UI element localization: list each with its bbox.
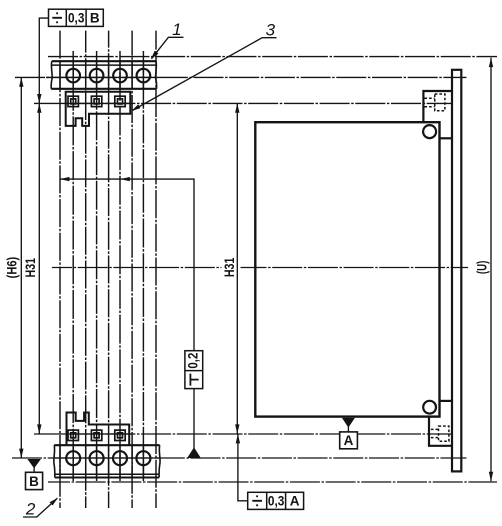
board front view outline: [255, 122, 439, 416]
pin 3 square top: [115, 96, 125, 106]
svg-text:3: 3: [266, 21, 276, 40]
hole 3 bottom: [113, 451, 127, 465]
hidden pin contour bottom: [431, 426, 449, 441]
pin 1 square bottom: [68, 430, 78, 440]
pin span dimension line: [60, 179, 194, 351]
pin row axis bottom: [34, 433, 451, 435]
pin 3 square bottom: [115, 430, 125, 440]
hole 1 bottom: [66, 451, 80, 465]
hole 3 top: [113, 69, 127, 83]
bottom bracket upper step: [440, 400, 453, 402]
arrow label 3: [132, 104, 141, 111]
pin row solid overdraw top: [64, 102, 132, 104]
datum A stem: [347, 426, 349, 432]
parallelism tolerance frame top: [49, 9, 104, 26]
svg-text:H31: H31: [23, 258, 38, 278]
datum B box: [26, 472, 43, 489]
dimension (U) line: [490, 58, 492, 482]
pin row axis top: [34, 102, 452, 104]
top bracket lower step: [440, 137, 453, 139]
dimension (H6) line: [20, 77, 22, 458]
arrow H31 left bottom: [37, 424, 41, 433]
arrow frame-B leader down: [37, 94, 41, 103]
top mounting bracket: [423, 91, 452, 121]
guide rail plate right: [452, 70, 461, 472]
datum B triangle: [27, 459, 41, 468]
datum A box: [340, 432, 358, 449]
arrow pin span left: [60, 177, 69, 181]
board hole top right: [423, 125, 436, 138]
centerline solid overdraw through bottom housing: [60, 445, 143, 477]
label 1 leader: [152, 37, 184, 58]
hidden pin contour top: [425, 94, 445, 111]
extension line top (U): [48, 56, 497, 58]
centerline V2: [85, 31, 87, 508]
hole 4 bottom: [136, 451, 150, 465]
bottom connector housing bar: [54, 445, 160, 477]
leader from parallelism frame: [39, 18, 48, 103]
symmetry tolerance frame bottom: [248, 492, 304, 509]
pin 1 square top: [68, 96, 78, 106]
board hole bottom right: [423, 401, 436, 414]
label 2 leader: [23, 498, 57, 517]
pin 2 square bottom: [91, 430, 101, 440]
dimension H31 right line: [236, 103, 238, 433]
leader to symmetry frame A: [238, 434, 248, 501]
pin row solid overdraw bottom: [64, 433, 131, 435]
hole 2 top: [90, 69, 104, 83]
symmetry symbol bottom: [252, 495, 262, 506]
arrow pin span mid: [120, 177, 129, 181]
svg-text:1: 1: [172, 20, 181, 39]
top connector body: [66, 92, 131, 126]
datum target triangle perpendicularity: [187, 447, 201, 458]
centerline V4: [131, 31, 133, 508]
pin axis P1: [72, 51, 74, 481]
arrow H31 left top: [37, 103, 41, 112]
perpendicularity tolerance frame: [185, 351, 203, 389]
label 3 leader: [132, 38, 276, 111]
hole 1 top: [66, 69, 80, 83]
arrow frame-A leader up: [236, 434, 240, 443]
svg-text:A: A: [290, 494, 300, 509]
centerline solid overdraw through top housing: [60, 61, 143, 89]
svg-text:2: 2: [25, 500, 36, 519]
arrow (U) bottom: [489, 472, 493, 481]
svg-text:H31: H31: [222, 257, 237, 277]
svg-text:0,3: 0,3: [68, 11, 85, 26]
top connector bar lip line: [52, 64, 157, 66]
centerline V1: [59, 31, 61, 508]
extension line bottom (U): [48, 481, 497, 483]
datum A triangle: [342, 418, 355, 428]
arrow label 1: [151, 51, 159, 60]
svg-text:(U): (U): [474, 261, 489, 275]
centerline V5: [155, 31, 157, 508]
pin axis P2: [96, 51, 98, 481]
bottom connector bar lip line: [55, 473, 160, 475]
hole row solid overdraw bottom: [53, 457, 161, 459]
svg-text:0,2: 0,2: [186, 353, 201, 369]
bottom connector body: [67, 413, 130, 446]
dimension H31 left line: [38, 103, 40, 433]
svg-text:0,3: 0,3: [268, 494, 285, 509]
svg-text:A: A: [344, 433, 354, 448]
arrow (H6) top: [19, 77, 23, 86]
bottom mounting bracket: [429, 417, 452, 446]
hole row axis top: [15, 76, 467, 78]
pin axis P3: [119, 51, 121, 481]
perpendicularity symbol: [190, 374, 198, 386]
arrow H31 right bottom: [235, 424, 239, 433]
hole 4 top: [137, 69, 151, 83]
centerline V3: [108, 31, 110, 508]
hole row axis bottom: [12, 457, 467, 459]
svg-text:(H6): (H6): [5, 257, 20, 279]
perpendicularity frame stem lower: [193, 389, 195, 449]
svg-text:B: B: [90, 11, 100, 26]
pin axis P4: [142, 51, 144, 481]
top connector housing bar: [51, 61, 156, 89]
arrow (H6) bottom: [19, 449, 23, 458]
main horizontal centerline: [52, 267, 222, 269]
arrow H31 right top: [235, 103, 239, 112]
svg-text:B: B: [29, 474, 39, 489]
pin 2 square top: [91, 96, 101, 106]
arrow label 2: [50, 498, 58, 506]
arrow (U) top: [489, 58, 493, 67]
datum B stem: [33, 467, 35, 472]
hole 2 bottom: [90, 451, 104, 465]
parallelism symbol top: [52, 12, 62, 23]
hole row solid overdraw top: [46, 76, 158, 78]
